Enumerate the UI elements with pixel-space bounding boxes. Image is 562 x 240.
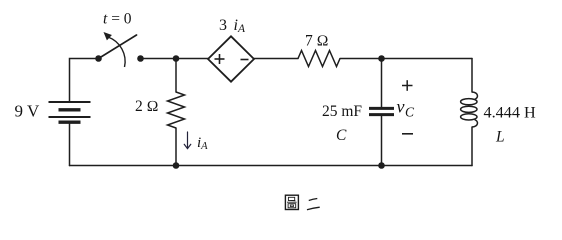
- caption character er (two): [307, 198, 320, 211]
- wire 2-ohm resistor bottom to bottom rail: [175, 128, 177, 166]
- node bottom of 2-ohm branch: [173, 162, 180, 169]
- svg-text:2 Ω: 2 Ω: [135, 98, 159, 115]
- wire battery bottom lead: [69, 123, 71, 166]
- node junction dot bottom of capacitor: [378, 162, 385, 169]
- label - inside diamond: [241, 59, 249, 61]
- resistor R1 2-ohm zigzag: [168, 92, 185, 128]
- wire right rail top to inductor: [471, 59, 473, 93]
- svg-text:3 iA: 3 iA: [219, 17, 246, 35]
- wire top-left horizontal: [70, 59, 96, 103]
- label - for vC: [402, 133, 413, 135]
- wire bottom rail: [70, 165, 473, 167]
- switch opening arc arrow: [108, 37, 125, 67]
- resistor R2 7-ohm zigzag: [298, 51, 340, 67]
- switch node left: [95, 55, 102, 62]
- inductor L1 coil: [461, 92, 478, 127]
- wire node-B down to capacitor top plate: [381, 59, 383, 108]
- svg-text:25 mF: 25 mF: [322, 103, 362, 120]
- svg-text:iA: iA: [197, 135, 208, 152]
- caption character tu (figure): [285, 195, 298, 209]
- wire diamond-right to 7-ohm resistor: [254, 58, 298, 60]
- svg-text:vC: vC: [397, 97, 416, 120]
- svg-text:4.444 H: 4.444 H: [484, 104, 536, 122]
- wire capacitor bottom plate to bottom rail: [381, 116, 383, 166]
- wire 7-ohm resistor to top-right corner: [340, 58, 472, 60]
- wire inductor bottom to bottom-right corner: [471, 127, 473, 166]
- svg-text:C: C: [336, 127, 347, 144]
- svg-text:7 Ω: 7 Ω: [305, 33, 329, 50]
- node B junction dot top: [378, 55, 385, 62]
- svg-text:9 V: 9 V: [15, 102, 40, 121]
- current arrow iA: [184, 132, 191, 149]
- svg-text:t = 0: t = 0: [103, 11, 132, 28]
- wire switch-right to diamond-left: [141, 58, 209, 60]
- capacitor C1 25mF plates: [369, 108, 394, 114]
- battery V1 9V plates: [49, 102, 91, 122]
- switch SW1 blade: [99, 35, 137, 59]
- label + inside diamond: [215, 54, 249, 64]
- label + for vC: [402, 80, 413, 91]
- wire node-A down to 2-ohm resistor top: [175, 59, 177, 93]
- switch node right: [137, 55, 144, 62]
- node A junction dot: [173, 55, 180, 62]
- svg-text:L: L: [495, 129, 505, 146]
- dependent source U1 diamond 3iA: [208, 36, 254, 81]
